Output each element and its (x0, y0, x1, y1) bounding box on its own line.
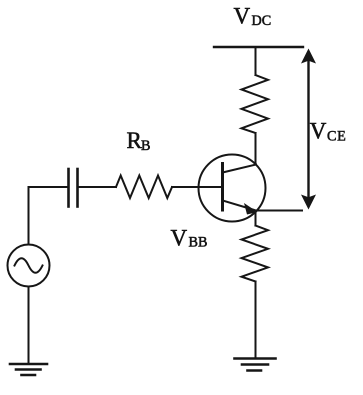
wire input down (28, 187, 30, 245)
resistor RB (116, 176, 172, 199)
ground right (235, 359, 276, 371)
capacitor C1 (69, 169, 78, 207)
wire collector to transistor (255, 133, 257, 165)
arrow VCE (301, 49, 316, 210)
svg-text:CE: CE (327, 129, 346, 145)
wire capacitor to RB (78, 186, 117, 188)
svg-text:V: V (234, 4, 251, 29)
node VDC rail (214, 46, 303, 48)
wire to ground right (255, 282, 257, 359)
ground left (10, 364, 47, 375)
wire emitter down (255, 211, 257, 226)
wire source to ground (28, 287, 30, 365)
wire emitter to arrow (256, 210, 302, 212)
resistor RC (242, 75, 269, 133)
transistor Q1 (199, 155, 266, 222)
svg-text:BB: BB (189, 235, 208, 251)
svg-text:B: B (141, 138, 150, 154)
svg-text:V: V (171, 226, 188, 251)
svg-text:DC: DC (252, 13, 272, 29)
wire collector top (255, 47, 257, 75)
resistor RE (242, 226, 269, 282)
wire input top (29, 186, 69, 188)
source VS (8, 245, 50, 287)
wire base (172, 186, 223, 188)
svg-text:V: V (310, 119, 327, 144)
